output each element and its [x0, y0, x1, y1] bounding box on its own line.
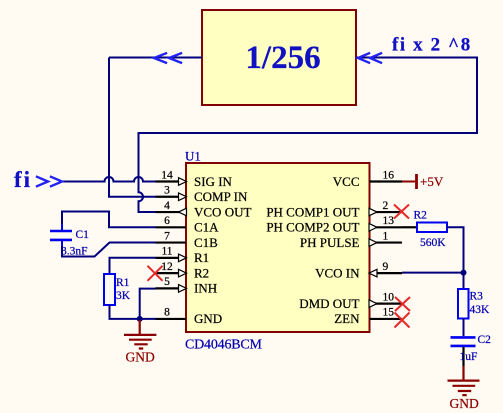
- pin 2 PH COMP1 OUT (right): [266, 200, 402, 220]
- pin 16 VCC (right): [333, 169, 402, 189]
- wire R3 to C2: [463, 319, 465, 337]
- label +5V: [420, 174, 444, 189]
- svg-text:1/256: 1/256: [245, 40, 320, 76]
- svg-text:3: 3: [164, 185, 170, 197]
- pin 11 R1 (left): [156, 246, 210, 266]
- value 3.3nF: [61, 246, 88, 258]
- capacitor C1: [50, 224, 72, 246]
- label GND (left): [126, 350, 155, 365]
- ground symbol (left): [124, 320, 156, 349]
- pin 4 VCO OUT (left): [156, 200, 252, 220]
- svg-text:1uF: 1uF: [460, 351, 478, 363]
- svg-text:fi: fi: [14, 167, 32, 192]
- label GND (right): [450, 396, 479, 411]
- svg-text:VCC: VCC: [333, 174, 360, 189]
- divider block 1/256: [202, 10, 356, 105]
- svg-text:U1: U1: [185, 149, 201, 164]
- svg-text:16: 16: [383, 169, 395, 181]
- wire fi input to SIG IN with two hops: [63, 177, 156, 182]
- pin 1 PH PULSE (right): [300, 230, 402, 250]
- svg-text:8: 8: [164, 307, 170, 319]
- wire node to R3: [463, 273, 465, 289]
- svg-text:CD4046BCM: CD4046BCM: [185, 338, 263, 353]
- svg-text:INH: INH: [194, 281, 217, 296]
- wire R1 bottom to ground rail: [110, 305, 156, 319]
- pin 9 VCO IN (right): [315, 261, 402, 281]
- no-connect X pin 12: [148, 266, 163, 281]
- svg-text:12: 12: [161, 261, 173, 273]
- svg-text:GND: GND: [126, 350, 155, 365]
- ground symbol (right): [448, 366, 480, 395]
- svg-text:15: 15: [383, 307, 395, 319]
- value 3K: [116, 290, 131, 302]
- label R1: [116, 277, 130, 289]
- pin 7 C1B (left): [156, 230, 219, 250]
- svg-text:3.3nF: 3.3nF: [61, 246, 88, 258]
- pin 13 PH COMP2 OUT (right): [266, 215, 402, 235]
- junction dot VCO IN node: [461, 270, 467, 276]
- svg-text:R1: R1: [116, 277, 130, 289]
- junction dot ground rail: [137, 316, 143, 322]
- svg-text:43K: 43K: [470, 304, 491, 316]
- svg-text:GND: GND: [194, 311, 222, 326]
- value 560K: [420, 237, 446, 249]
- svg-text:R2: R2: [194, 265, 209, 280]
- svg-text:C1B: C1B: [194, 235, 218, 250]
- svg-text:1: 1: [383, 230, 389, 242]
- label C1: [76, 229, 90, 241]
- no-connect X pin 2: [394, 205, 409, 219]
- svg-text:C1: C1: [76, 229, 90, 241]
- pin 15 ZEN (right): [334, 307, 402, 327]
- pin 6 C1A (left): [156, 215, 220, 235]
- pin 14 SIG IN (left): [156, 169, 233, 189]
- svg-text:11: 11: [161, 246, 172, 258]
- power +5V symbol: [402, 174, 417, 189]
- wire R2 to VCO IN node: [447, 227, 464, 272]
- pin 10 DMD OUT (right): [299, 291, 402, 311]
- wire INH (pin 5) to ground rail: [140, 289, 156, 319]
- svg-text:COMP IN: COMP IN: [194, 189, 248, 204]
- wire C2 to ground: [462, 347, 464, 366]
- op IC U1 CD4046BCM body: [186, 163, 370, 332]
- svg-text:PH COMP2 OUT: PH COMP2 OUT: [266, 220, 359, 235]
- label fi (input net): [14, 167, 32, 192]
- part number CD4046BCM: [185, 338, 263, 353]
- label R3: [470, 291, 484, 303]
- resistor R1: [104, 274, 115, 305]
- svg-text:13: 13: [383, 215, 395, 227]
- no-connect X pin 10: [395, 297, 410, 311]
- label C2: [478, 334, 492, 346]
- svg-text:14: 14: [161, 169, 173, 181]
- svg-text:C1A: C1A: [194, 220, 219, 235]
- pin 3 COMP IN (left): [156, 185, 248, 205]
- pin 5 INH (left): [156, 276, 218, 296]
- svg-text:R1: R1: [194, 250, 209, 265]
- label fi x 2^8 (VCO output net): [392, 35, 472, 56]
- svg-text:10: 10: [383, 291, 395, 303]
- pin 12 R2 (left): [156, 261, 210, 281]
- svg-text:VCO IN: VCO IN: [315, 265, 360, 280]
- feedback wire VCO OUT up and right (node at x=138.5) with hop over COMP IN wire: [139, 58, 478, 213]
- svg-text:2: 2: [383, 200, 389, 212]
- value 1uF: [460, 351, 478, 363]
- wire C1 top plate to C1A (pin 6): [62, 212, 156, 228]
- wire pin 13 to R2: [402, 226, 417, 228]
- wire C1 bottom plate to C1B (pin 7): [62, 243, 156, 257]
- svg-text:GND: GND: [450, 396, 479, 411]
- svg-text:6: 6: [164, 215, 170, 227]
- svg-text:9: 9: [383, 261, 389, 273]
- svg-text:3K: 3K: [116, 290, 131, 302]
- svg-text:PH COMP1 OUT: PH COMP1 OUT: [266, 204, 359, 219]
- svg-text:7: 7: [164, 230, 170, 242]
- svg-text:R3: R3: [470, 291, 484, 303]
- svg-text:SIG IN: SIG IN: [194, 174, 233, 189]
- signal-flow arrows on divider input wire: [358, 53, 381, 62]
- svg-text:+5V: +5V: [420, 174, 444, 189]
- resistor R3: [458, 289, 469, 319]
- svg-text:4: 4: [164, 200, 170, 212]
- svg-text:R2: R2: [414, 210, 428, 222]
- svg-text:560K: 560K: [420, 237, 446, 249]
- svg-text:fi x 2 ^8: fi x 2 ^8: [392, 35, 472, 56]
- wire R1 top to pin 11: [110, 258, 156, 274]
- wire divider output (left of 1/256): [109, 57, 202, 59]
- pin 8 GND (left): [156, 307, 223, 327]
- svg-text:VCO OUT: VCO OUT: [194, 204, 251, 219]
- label R2: [414, 210, 428, 222]
- resistor R2: [417, 223, 447, 233]
- wire from divider output down to COMP IN (node at x=109): [109, 58, 156, 197]
- signal-flow arrows on divider output wire: [154, 53, 181, 62]
- svg-text:DMD OUT: DMD OUT: [299, 296, 359, 311]
- wire VCO IN (pin 9) to node: [402, 272, 464, 274]
- reference designator U1: [185, 149, 201, 164]
- svg-text:ZEN: ZEN: [334, 311, 360, 326]
- no-connect X pin 15: [395, 313, 410, 328]
- value 43K: [470, 304, 491, 316]
- svg-text:5: 5: [164, 276, 170, 288]
- capacitor C2: [451, 337, 476, 346]
- input arrows >> on fi: [37, 177, 62, 186]
- svg-text:PH PULSE: PH PULSE: [300, 235, 360, 250]
- svg-text:C2: C2: [478, 334, 492, 346]
